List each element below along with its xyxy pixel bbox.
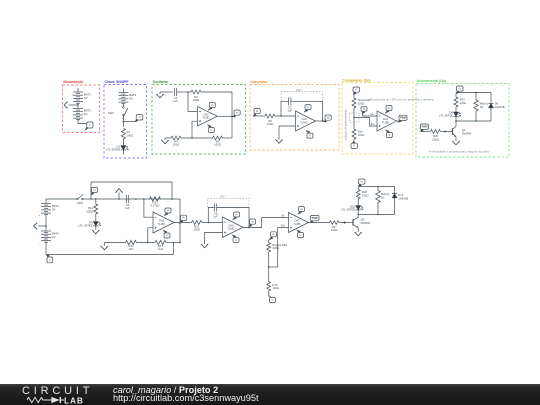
polarity - mark: [39, 242, 40, 246]
net flag V+ (left arrow): [64, 102, 78, 108]
net flag (left arrow): [34, 223, 47, 229]
diode D12: [392, 187, 408, 215]
wire: [77, 103, 79, 109]
supply flag V+: [233, 212, 240, 220]
svg-text:1Ω: 1Ω: [381, 195, 385, 199]
supply arrow flag: [116, 189, 123, 200]
svg-text:1N914B: 1N914B: [398, 196, 408, 200]
supply flag V+: [298, 207, 305, 215]
resistor R14: [126, 240, 137, 251]
node flag Vs: [232, 110, 240, 117]
polarity + mark: [39, 213, 41, 217]
node flag V-: [85, 122, 93, 130]
svg-text:+: +: [71, 93, 73, 97]
supply flag V+ (top): [353, 87, 360, 95]
wire to inverting input: [188, 92, 198, 111]
note about speed: [429, 150, 490, 154]
svg-text:IN+: IN+: [281, 224, 286, 228]
svg-text:Comparador (Op): Comparador (Op): [343, 78, 371, 82]
LED D8: [439, 110, 461, 117]
svg-text:Alimentação: Alimentação: [63, 80, 83, 84]
svg-text:V-: V-: [299, 235, 301, 237]
wire: [181, 137, 213, 139]
wire: [122, 103, 124, 106]
top bus wire with switch SW2: [46, 195, 180, 205]
svg-text:100Ω: 100Ω: [214, 143, 221, 147]
wire: [353, 108, 355, 129]
diode D9: [488, 93, 504, 122]
node flag Vs (input): [253, 109, 260, 117]
switch SW1: [108, 107, 128, 119]
node flag Vo: [323, 115, 331, 122]
wire: [231, 116, 233, 138]
svg-text:IN-: IN-: [281, 214, 285, 218]
svg-text:LTL-307EE: LTL-307EE: [78, 224, 92, 228]
svg-text:A velocidade é proporcional a: A velocidade é proporcional a largura do…: [429, 150, 490, 154]
supply flag V-: [232, 235, 239, 243]
output wire PWM: [309, 215, 330, 222]
resistor R26b: [431, 130, 441, 142]
svg-text:100Ω: 100Ω: [272, 246, 279, 250]
annotation dashed rect over C5: [208, 195, 249, 208]
wire to base: [339, 221, 353, 223]
wire: [137, 242, 156, 244]
battery BAT1: [73, 88, 91, 103]
capacitor C2: [287, 97, 292, 112]
wire: [201, 92, 232, 116]
annotation box Alimentação (red): [63, 80, 100, 132]
svg-text:100Ω: 100Ω: [193, 228, 200, 232]
node flag V+ on riser: [91, 182, 98, 199]
battery BAT2: [73, 109, 91, 120]
svg-text:TL081: TL081: [202, 116, 210, 120]
wire: [268, 252, 278, 282]
svg-text:colocar um potenciômetro: colocar um potenciômetro: [344, 109, 348, 140]
resistor R19: [267, 282, 279, 292]
svg-text:V-: V-: [309, 136, 311, 138]
svg-text:V-: V-: [235, 240, 237, 242]
LED D4: [78, 214, 100, 228]
svg-text:Oscilador: Oscilador: [153, 80, 169, 84]
svg-text:V-: V-: [271, 300, 273, 302]
resistor R15: [192, 220, 203, 231]
transistor Q2: [453, 121, 472, 141]
wire to ground from non-inverting input: [205, 233, 223, 245]
footer bar: [0, 384, 540, 405]
svg-text:LAB: LAB: [64, 396, 84, 404]
svg-text:PWM: PWM: [312, 217, 318, 220]
ground: [201, 244, 208, 248]
svg-text:IN-: IN-: [370, 112, 374, 116]
node flag V1: [361, 106, 367, 114]
wire top rail: [456, 92, 491, 97]
svg-text:100Ω: 100Ω: [126, 134, 133, 138]
annotation box Comparador (yellow): [342, 78, 413, 154]
svg-text:100Ω: 100Ω: [267, 122, 274, 126]
resistor R2: [191, 90, 201, 102]
node flag: [135, 115, 143, 122]
supply flag V+: [385, 106, 392, 114]
svg-text:Chave ON/OFF: Chave ON/OFF: [105, 80, 129, 84]
svg-text:100Ω: 100Ω: [362, 193, 369, 197]
svg-text:1N914B: 1N914B: [495, 105, 505, 109]
wire IN- to op-amp: [363, 112, 377, 116]
label IN+: [281, 224, 286, 228]
wire to non-inverting input: [192, 121, 198, 138]
svg-text:100Ω: 100Ω: [331, 228, 338, 232]
driver top rail: [358, 186, 394, 190]
svg-text:Integrador: Integrador: [251, 80, 268, 84]
output wire and PWM flag: [397, 115, 408, 122]
svg-text:V-: V-: [166, 235, 168, 237]
wire: [353, 139, 355, 143]
wire: [166, 242, 180, 255]
svg-text:LTL-307EE: LTL-307EE: [106, 148, 120, 152]
top feedback wire: [91, 182, 172, 199]
svg-text:TL081: TL081: [300, 120, 308, 124]
supply flag V-: [163, 230, 170, 238]
svg-text:9V: 9V: [52, 235, 56, 239]
svg-text:100Ω: 100Ω: [173, 143, 180, 147]
resistor R12: [150, 197, 161, 208]
svg-text:2N3904: 2N3904: [462, 131, 472, 135]
wire: [122, 139, 124, 145]
wire: [455, 107, 457, 112]
wire from non-inverting input: [148, 228, 153, 243]
op-amp OA4: [377, 111, 397, 131]
supply flag V+ (top): [456, 86, 463, 94]
capacitor C5: [213, 204, 218, 219]
wire battery to bottom bus: [45, 242, 47, 255]
svg-text:1kΩ: 1kΩ: [129, 247, 134, 251]
feedback wire: [281, 101, 323, 121]
rotated note colocar um potenciometro: [344, 109, 348, 140]
wire to base: [441, 130, 453, 132]
svg-text:1uF: 1uF: [173, 99, 178, 103]
svg-text:V-: V-: [89, 124, 91, 127]
dashed highlight box: [350, 113, 360, 122]
wire to ground from non-inverting input: [279, 126, 296, 140]
svg-text:1kΩ: 1kΩ: [158, 247, 163, 251]
ground: [92, 226, 99, 234]
node flag Vo2b: [249, 219, 256, 227]
svg-text:2N3904: 2N3904: [361, 221, 371, 225]
svg-text:LTL-307EE: LTL-307EE: [439, 114, 453, 118]
wire: [177, 91, 191, 93]
annotation box Integrador (orange): [250, 80, 339, 150]
LED D10: [341, 199, 363, 212]
note Resistencia do LDR: [370, 98, 434, 102]
ground: [156, 92, 163, 98]
motor Motor1: [474, 93, 489, 122]
svg-text:PWM: PWM: [400, 117, 406, 120]
supply flag V+ (driver): [358, 179, 365, 187]
LED D1: [106, 144, 128, 154]
motor Motor2: [376, 187, 390, 215]
svg-text:100Ω: 100Ω: [460, 101, 467, 105]
svg-text:1uF: 1uF: [287, 108, 292, 112]
supply flag V-: [297, 230, 304, 238]
svg-text:1/RC: 1/RC: [295, 88, 301, 92]
supply flag V- (bottom): [351, 141, 358, 148]
wire bottom rail: [455, 116, 491, 121]
svg-text:1Ω: 1Ω: [480, 105, 484, 109]
supply flag V- (bottom): [269, 295, 276, 302]
annotation box Acionamento (light green): [416, 79, 509, 157]
supply flag V+: [164, 208, 171, 216]
wire: [253, 115, 265, 117]
annotation dashed rect with gain note: [281, 88, 323, 101]
svg-text:9V: 9V: [52, 208, 56, 212]
svg-text:100Ω: 100Ω: [86, 210, 93, 214]
resistor R25: [454, 97, 466, 107]
resistor R4: [165, 136, 181, 147]
label IN-: [281, 214, 285, 218]
wire: [268, 291, 270, 297]
svg-text:IN+: IN+: [371, 122, 376, 126]
svg-text:V-: V-: [353, 146, 355, 148]
svg-text:Acionamento (Op): Acionamento (Op): [417, 79, 446, 83]
supply flag V-: [385, 130, 392, 138]
op-amp OA6: [223, 217, 244, 238]
svg-text:PWM: PWM: [422, 126, 428, 129]
polarity - mark: [72, 116, 73, 120]
svg-text:-: -: [39, 242, 40, 246]
resistor R1: [121, 129, 133, 140]
supply flag V+: [208, 103, 215, 111]
battery BAT1 (switch demo): [118, 89, 136, 104]
svg-text:TL081: TL081: [227, 227, 235, 231]
wire: [78, 119, 87, 123]
wire: [223, 137, 233, 139]
output wire: [174, 222, 192, 224]
resistor R5: [265, 114, 275, 126]
op-amp OA5: [153, 212, 174, 233]
battery BAT4: [41, 231, 59, 242]
svg-text:9V: 9V: [84, 112, 88, 116]
op-amp OA2: [198, 107, 218, 127]
output wire OA6: [243, 218, 289, 229]
footer text: [113, 386, 259, 403]
supply flag V+: [304, 105, 311, 113]
resistor Resid.LDR1: [267, 232, 288, 252]
capacitor C4: [125, 195, 130, 210]
svg-text:100Ω: 100Ω: [272, 286, 279, 290]
svg-text:SW1: SW1: [108, 111, 115, 115]
node flag Vo2: [180, 215, 187, 222]
riser to output node: [179, 199, 181, 243]
svg-text:1uF: 1uF: [213, 214, 218, 218]
output wire: [218, 116, 233, 118]
wire IN+ to op-amp: [354, 118, 377, 127]
feedback wire with C5: [208, 208, 249, 228]
resistor R16: [352, 129, 364, 139]
wire from non-inverting input: [278, 228, 289, 268]
svg-text:100Ω: 100Ω: [432, 137, 439, 141]
svg-text:V-: V-: [388, 135, 390, 137]
svg-text:1/RC: 1/RC: [219, 195, 225, 199]
ground: [452, 141, 459, 145]
mid bus with R14 R13: [104, 243, 125, 247]
polarity + mark: [71, 93, 73, 97]
input flag PWM: [421, 124, 431, 132]
svg-text:100Ω: 100Ω: [358, 133, 365, 137]
ground: [101, 246, 108, 250]
svg-text:V-: V-: [210, 130, 212, 132]
svg-text:+: +: [39, 213, 41, 217]
driver bottom rail: [357, 210, 394, 217]
output wire: [316, 120, 326, 122]
supply flag V-: [306, 130, 313, 138]
svg-text:Resistência do LDR com luz amb: Resistência do LDR com luz ambiente e la…: [370, 98, 434, 102]
svg-text:9V: 9V: [129, 97, 133, 101]
resistor R3: [213, 136, 223, 147]
wire: [160, 91, 173, 93]
ground: [161, 138, 168, 144]
svg-text:100Ω: 100Ω: [193, 98, 200, 102]
CircuitLab logo: [22, 387, 93, 404]
annotation box Oscilador (green): [152, 80, 246, 154]
svg-text:-: -: [72, 116, 73, 120]
op-amp OA7: [289, 213, 309, 233]
transistor Q6: [353, 217, 371, 228]
bottom bus wire: [46, 254, 174, 256]
capacitor C1: [173, 88, 178, 103]
ground: [275, 140, 282, 144]
wire: [45, 214, 47, 231]
svg-text:TL081: TL081: [382, 120, 390, 124]
battery BAT3: [41, 199, 59, 215]
resistor R13: [155, 240, 166, 251]
svg-text:1uF: 1uF: [125, 206, 130, 210]
wire: [353, 95, 355, 99]
node flag on bottom bus: [46, 255, 53, 263]
svg-text:9V: 9V: [84, 96, 88, 100]
wire to inverting input: [144, 199, 153, 217]
supply flag V-: [207, 125, 214, 133]
wire: [275, 115, 296, 117]
svg-text:2.27kΩ: 2.27kΩ: [151, 204, 160, 208]
op-amp OA3: [296, 111, 316, 131]
svg-text:SW2: SW2: [77, 201, 83, 205]
ground: [355, 228, 362, 236]
resistor Resid.LDR: [352, 98, 371, 108]
resistor R27: [330, 221, 340, 233]
svg-text:LTL-307EE: LTL-307EE: [341, 208, 355, 212]
resistor R11: [86, 199, 98, 214]
svg-text:TL081: TL081: [293, 222, 301, 226]
wire: [123, 116, 137, 127]
annotation box Chave ON/OFF (blue): [104, 80, 147, 158]
svg-text:100Ω: 100Ω: [358, 101, 365, 105]
wire: [202, 222, 223, 224]
svg-text:TL081: TL081: [158, 222, 166, 226]
resistor R26: [356, 190, 368, 199]
